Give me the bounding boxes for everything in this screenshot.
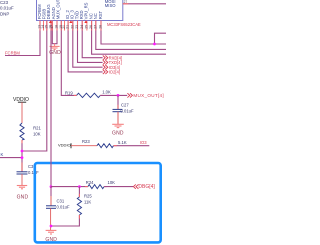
capacitor C30 labels (under highlight box edge)	[28, 164, 39, 175]
ground symbol under IC	[50, 46, 60, 49]
wire junction to R25	[78, 187, 80, 197]
port DBG chevron	[133, 184, 138, 188]
svg-text:MISO: MISO	[105, 3, 116, 8]
op-amp U1 IC body MC33FS6523CAE	[37, 0, 123, 21]
junction node DEBUG/R24/C31	[50, 185, 53, 188]
junction node K	[21, 156, 24, 159]
wire net K	[0, 157, 22, 159]
port TXD[4]	[103, 60, 108, 64]
wire NC2 pin to right edge	[96, 21, 166, 50]
port MUX_OUT chevron	[127, 93, 132, 97]
wire VDDIO to R23	[71, 145, 97, 147]
svg-text:23: 23	[75, 25, 79, 29]
wire C31 to gnd junction	[50, 208, 52, 230]
wire R23 to net IO3	[114, 145, 150, 147]
svg-text:GND: GND	[112, 130, 124, 136]
svg-text:28: 28	[99, 25, 103, 29]
capacitor C31	[46, 206, 56, 209]
resistor R24	[88, 185, 104, 189]
svg-text:11K: 11K	[84, 199, 91, 204]
wire VDDIO to R21	[21, 102, 23, 123]
ground symbol C31	[46, 230, 57, 234]
resistor R25 lead stub	[78, 215, 80, 219]
wire TXD to port	[78, 21, 103, 63]
ground symbol C27	[112, 124, 124, 127]
wire NC pin to right edge	[92, 21, 166, 55]
svg-text:R19: R19	[65, 91, 73, 96]
wire MISO to right edge	[123, 3, 166, 5]
highlight box (blue annotation rectangle)	[35, 163, 161, 242]
svg-text:17: 17	[50, 25, 54, 29]
wire C27 to ground	[117, 112, 119, 125]
svg-text:C23: C23	[0, 0, 9, 5]
svg-text:DNP: DNP	[0, 11, 9, 16]
capacitor C27	[113, 109, 123, 111]
wire AGND pin to gnd bar	[52, 21, 57, 44]
resistor R24 lead stubs	[85, 186, 88, 188]
svg-text:10K: 10K	[33, 131, 41, 136]
port IO3[4]	[103, 65, 108, 69]
wire FS0B vertical to R21 junction	[22, 21, 47, 152]
svg-text:0.01uF: 0.01uF	[0, 5, 14, 10]
svg-text:27: 27	[93, 25, 97, 29]
svg-text:5.1K: 5.1K	[118, 140, 127, 145]
wire R21 down to cap C30	[21, 140, 23, 172]
ground symbol C30	[17, 186, 27, 189]
wire junction down through C31	[50, 187, 52, 196]
resistor R21	[20, 123, 24, 140]
svg-text:FCRBM: FCRBM	[5, 51, 20, 56]
wire gnd stub	[54, 44, 56, 47]
wire junction to R24	[51, 186, 88, 188]
svg-text:21: 21	[66, 25, 70, 29]
svg-text:R23: R23	[82, 139, 90, 144]
ERC marker triangle 3	[84, 20, 87, 23]
wire junction to C27	[117, 95, 119, 109]
junction node RST branch	[153, 43, 156, 46]
svg-text:K: K	[1, 152, 4, 157]
svg-text:VDDIO: VDDIO	[58, 142, 71, 147]
junction node R24/R25	[78, 185, 81, 188]
svg-text:R24: R24	[86, 180, 94, 185]
resistor R23	[97, 144, 114, 148]
wire RXD to port	[82, 21, 102, 58]
wire R19 to MUX_OUT port	[100, 94, 127, 96]
svg-text:MUX_OUT[4]: MUX_OUT[4]	[133, 93, 164, 98]
svg-text:C27: C27	[121, 103, 129, 108]
port IO2[4]	[103, 70, 108, 74]
wire branch up from RST net	[155, 33, 167, 44]
port RXD[4]	[103, 56, 108, 60]
svg-text:1.0K: 1.0K	[102, 90, 111, 95]
svg-text:IO3: IO3	[140, 140, 147, 145]
pin stub MISO	[123, 3, 128, 5]
svg-text:24: 24	[80, 25, 84, 29]
svg-text:DBG[4]: DBG[4]	[138, 184, 155, 190]
wire net FCRBM	[5, 21, 40, 56]
svg-text:MUX_OUT: MUX_OUT	[56, 0, 61, 19]
svg-text:IO2[4]: IO2[4]	[109, 70, 120, 75]
svg-text:0.01uF: 0.01uF	[57, 205, 70, 210]
svg-text:MC33FS6523CAE: MC33FS6523CAE	[107, 22, 141, 27]
wire IO_2 to port	[68, 21, 103, 72]
capacitor C30	[17, 172, 28, 174]
svg-text:R25: R25	[84, 194, 92, 199]
junction node gnd rail	[50, 225, 53, 228]
svg-text:RST: RST	[98, 10, 103, 19]
wire C30 to ground	[21, 174, 23, 185]
svg-text:22: 22	[70, 25, 74, 29]
wire RST pin to right edge	[101, 21, 166, 45]
capacitor C23 value labels (part off-screen top-left)	[0, 0, 14, 16]
resistor R19 lead stubs	[74, 94, 77, 96]
pin stubs bottom edge	[40, 21, 101, 31]
resistor R25	[77, 197, 81, 215]
resistor R19	[77, 93, 101, 97]
svg-text:GND: GND	[17, 194, 29, 200]
junction node FS0B/R21	[21, 150, 24, 153]
svg-text:0.01uF: 0.01uF	[121, 108, 134, 113]
junction node R19/C27	[117, 94, 120, 97]
wire MUX_OUT drop to R19	[61, 21, 76, 96]
svg-text:25: 25	[85, 25, 89, 29]
wire R24 to DBG port	[104, 186, 133, 188]
ERC marker triangle 1	[49, 20, 52, 23]
wire DEBUG long vertical into highlight box	[50, 21, 52, 187]
svg-text:C31: C31	[57, 199, 65, 204]
svg-text:10K: 10K	[108, 180, 116, 185]
svg-text:GND: GND	[45, 237, 57, 243]
wire IO_3 to port	[73, 21, 103, 68]
pin numbers bottom row	[38, 25, 103, 29]
svg-text:R21: R21	[33, 126, 41, 131]
wire R25 down and left to gnd rail	[51, 215, 79, 226]
ERC marker triangle 2	[69, 20, 72, 23]
